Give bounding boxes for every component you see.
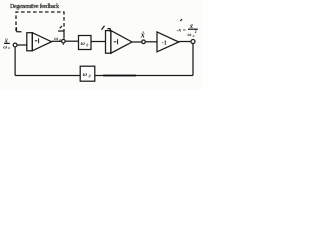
wire node A to coefficient box P1 bbox=[65, 40, 78, 42]
svg-text:ω: ω bbox=[188, 32, 192, 38]
input terminal bbox=[13, 43, 17, 47]
wire U3 to node C bbox=[179, 41, 191, 43]
svg-text:-1: -1 bbox=[162, 41, 167, 47]
svg-text:ẋ: ẋ bbox=[140, 31, 145, 40]
output label -x = x-dot-dot over omega-0 squared bbox=[177, 23, 197, 38]
P1 label omega-0 bbox=[81, 41, 89, 47]
node A label omega-0 bbox=[54, 36, 61, 42]
svg-text:ω: ω bbox=[83, 72, 87, 78]
node B label x-dot bbox=[140, 31, 145, 40]
wire U1 to node A bbox=[52, 40, 62, 42]
integrator U2 amplifier bbox=[111, 31, 132, 54]
U3 gain label -1 bbox=[162, 41, 167, 47]
svg-text:2: 2 bbox=[195, 30, 197, 34]
feedback wire: bottom right segment bbox=[95, 75, 193, 77]
integrator U2 minus-integral mark bbox=[114, 41, 117, 43]
wire node B to inverter U3 bbox=[145, 41, 157, 43]
svg-text:ω: ω bbox=[54, 36, 58, 42]
wire input terminal to integrator U1 bbox=[17, 44, 27, 46]
integrator U1 amplifier bbox=[32, 33, 51, 51]
dashed box bottom-right stub bbox=[58, 30, 64, 32]
P2 label omega-0 bbox=[83, 72, 91, 78]
prime tick above integrator U2 bbox=[102, 26, 105, 30]
svg-text:0: 0 bbox=[89, 74, 91, 78]
svg-text:0: 0 bbox=[193, 34, 195, 38]
feedback coefficient box P2 bbox=[80, 66, 95, 81]
svg-text:0: 0 bbox=[59, 38, 61, 42]
node A bbox=[62, 39, 66, 43]
tick below node A bbox=[62, 43, 64, 45]
svg-text:ω: ω bbox=[3, 44, 7, 50]
svg-text:0: 0 bbox=[86, 43, 88, 47]
prime tick above node A bbox=[60, 26, 62, 28]
dashed callout box bbox=[16, 12, 64, 31]
IC stub above integrator U2 bbox=[107, 29, 110, 32]
coefficient box P1 bbox=[79, 36, 92, 50]
wire: darker scan segment bbox=[103, 75, 136, 77]
svg-text:ω: ω bbox=[81, 41, 85, 47]
input label x-dot-dot over omega-0 bbox=[3, 38, 10, 51]
svg-text:Degenerative feedback: Degenerative feedback bbox=[10, 3, 59, 10]
integrator U1 minus-integral mark bbox=[35, 40, 38, 42]
integrator U1 input block bbox=[27, 33, 33, 51]
prime tick above output label bbox=[180, 19, 182, 21]
dashed pointer to node A bbox=[63, 31, 65, 39]
feedback wire: up to input terminal bbox=[14, 47, 16, 76]
feedback wire: node C down bbox=[192, 43, 194, 75]
node B bbox=[142, 40, 146, 44]
inverter U3 bbox=[157, 32, 179, 52]
input label fraction bar bbox=[4, 42, 10, 44]
wire P1 to integrator U2 bbox=[91, 41, 106, 43]
node C bbox=[191, 40, 195, 44]
output label fraction bar bbox=[188, 28, 198, 30]
svg-text:-x =: -x = bbox=[177, 28, 186, 34]
svg-text:0: 0 bbox=[8, 46, 10, 50]
wire U2 to node B bbox=[132, 41, 142, 43]
feedback wire: bottom left segment bbox=[15, 75, 80, 77]
IC stub above integrator U1 bbox=[17, 27, 22, 32]
integrator U2 input block bbox=[106, 31, 111, 54]
